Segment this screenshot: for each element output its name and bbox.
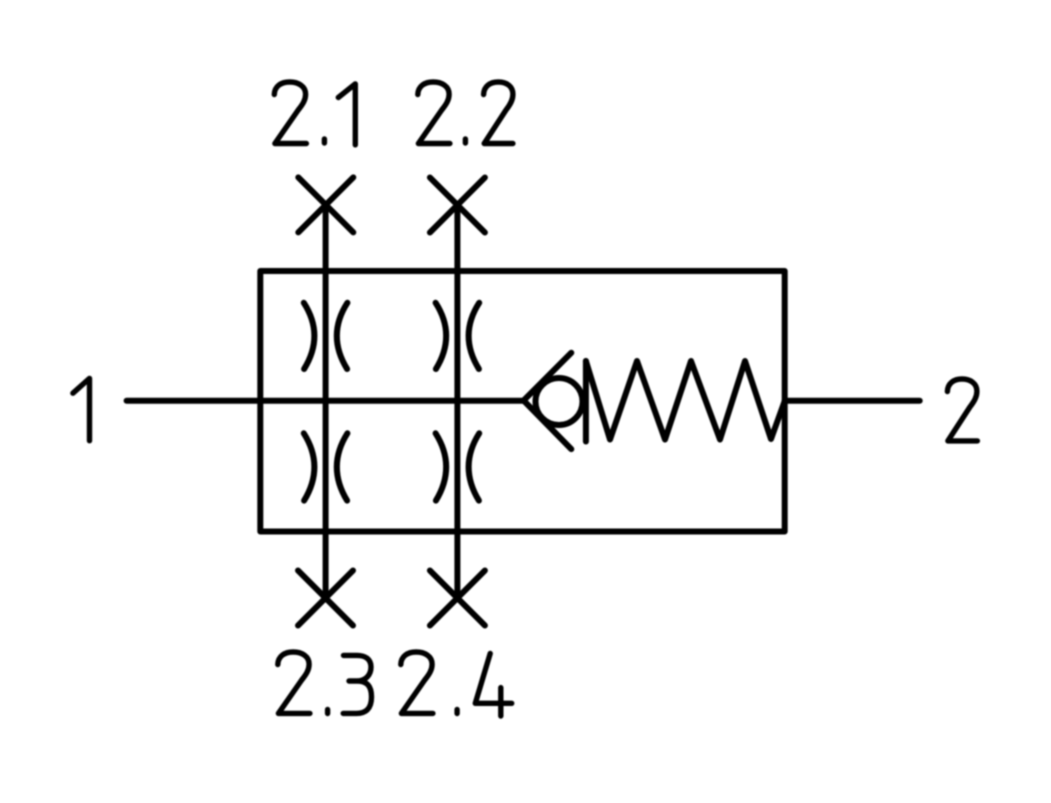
- label 2.2 : first digit 2: [418, 82, 450, 144]
- label 2.4 : period: [454, 710, 459, 714]
- port label 2: [947, 379, 977, 441]
- restriction upper-right : left arc: [436, 303, 447, 369]
- vertical pilot line right (2.2 to 2.4): [454, 205, 460, 598]
- restriction lower-right : left arc: [436, 433, 447, 500]
- label 2.2 : period: [463, 139, 468, 143]
- measuring point cross 2.4: [430, 571, 485, 626]
- label 2.3 : digit 2: [278, 652, 310, 713]
- vertical pilot line left (2.1 to 2.3): [323, 205, 329, 598]
- label 2.1 : digit 2: [274, 82, 306, 144]
- check valve seat: [524, 353, 572, 449]
- main line check valve to port 2: [785, 398, 920, 404]
- check valve ball: [536, 378, 583, 425]
- restriction lower-left : left arc: [304, 433, 315, 500]
- main line port 1 to check valve seat: [127, 398, 524, 404]
- restriction upper-left : right arc: [337, 303, 348, 369]
- restriction upper-left : left arc: [304, 303, 315, 369]
- label 2.3 : period: [325, 710, 330, 714]
- valve body rectangle: [260, 271, 784, 532]
- label 2.4 : digit 2: [401, 652, 433, 713]
- label 2.1 : period: [322, 139, 327, 143]
- measuring point cross 2.3: [298, 571, 353, 626]
- spring end plate: [583, 361, 589, 442]
- label 2.3 : digit 3: [343, 655, 371, 713]
- label 2.2 : second digit 2: [484, 82, 513, 144]
- restriction lower-left : right arc: [337, 433, 348, 500]
- measuring point cross 2.1: [298, 177, 353, 232]
- measuring point cross 2.2: [430, 178, 485, 233]
- label 2.1 : digit 1: [338, 84, 355, 145]
- restriction lower-right : right arc: [469, 433, 480, 500]
- label 2.4 : digit 4: [475, 654, 511, 717]
- restriction upper-right : right arc: [469, 303, 480, 369]
- spring zigzag: [586, 361, 785, 440]
- port label 1: [73, 378, 90, 440]
